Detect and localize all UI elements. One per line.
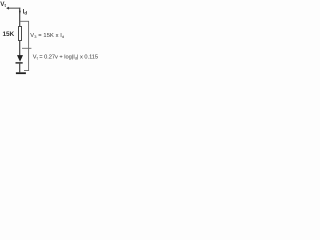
- svg-text:t: t: [5, 3, 7, 8]
- svg-text:d: d: [24, 10, 27, 16]
- svg-text:Vt = 0.27v + log|Id| x 0.115: Vt = 0.27v + log|Id| x 0.115: [33, 54, 98, 60]
- svg-text:15K: 15K: [3, 31, 15, 38]
- svg-text:V3 = 15K x Id: V3 = 15K x Id: [30, 33, 64, 39]
